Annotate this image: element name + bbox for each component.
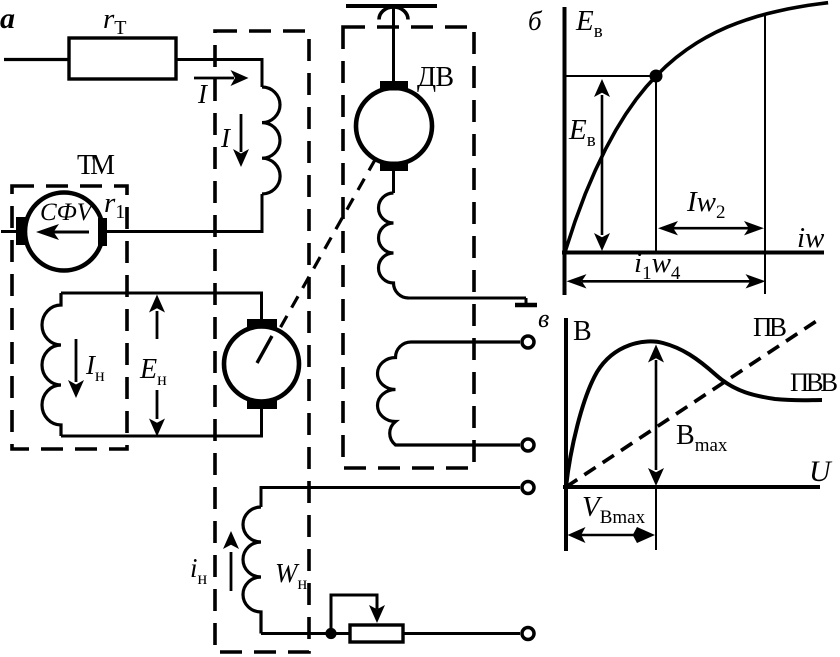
svg-text:а: а — [0, 2, 15, 35]
wire: loop bottom — [61, 409, 262, 436]
graph b: i1w4 double arrow — [567, 274, 766, 288]
svg-text:r1: r1 — [104, 187, 125, 223]
motor DV armature — [356, 81, 432, 171]
svg-text:I: I — [220, 123, 232, 153]
shaft segment inside generator — [257, 336, 272, 363]
graph v: PV dashed line — [566, 320, 818, 487]
rheostat wiper — [331, 595, 385, 634]
svg-text:в: в — [538, 304, 549, 333]
current arrow I (horizontal) — [194, 70, 249, 86]
wire: coil w1 bottom to TM node — [261, 194, 264, 233]
svg-text:Wн: Wн — [275, 558, 308, 593]
terminal v symbol — [515, 298, 537, 305]
graph v: y axis — [564, 318, 568, 551]
dashed box middle (amplifier unit) — [215, 31, 309, 652]
svg-text:I: I — [197, 79, 209, 109]
graph b: Iw2 double arrow — [658, 221, 764, 235]
shaft segment inside motor DV — [377, 131, 392, 157]
fan symbol arc — [379, 7, 408, 20]
wire: input lead to resistor rT — [4, 58, 69, 61]
graph v: PVV curve — [566, 341, 822, 487]
wire: loop top — [61, 293, 262, 320]
svg-text:Bmax: Bmax — [676, 420, 728, 456]
svg-text:ПВВ: ПВВ — [790, 367, 838, 397]
wire: series coil to terminal v — [409, 297, 527, 300]
current arrow i_n — [223, 531, 239, 591]
dashed shaft (mechanical coupling) — [279, 159, 376, 331]
graph b: y axis — [563, 7, 567, 295]
terminal 1 — [522, 336, 534, 348]
graph v: vertical line below axis — [655, 487, 657, 550]
top rail above fan — [346, 4, 437, 8]
svg-text:iн: iн — [190, 553, 208, 588]
svg-text:В: В — [573, 316, 592, 347]
svg-text:iw: iw — [797, 222, 825, 254]
svg-text:rТ: rТ — [103, 3, 127, 39]
dashed box TM — [12, 186, 127, 449]
svg-text:СФV: СФV — [40, 199, 95, 226]
generator armature (amplidyne) — [224, 319, 299, 409]
wire: fan shaft to motor DV — [392, 6, 395, 82]
series coil of DV — [379, 193, 409, 298]
graph b: horizontal level line — [565, 75, 656, 77]
svg-text:Eв: Eв — [568, 114, 596, 151]
dashed box DV — [343, 27, 474, 468]
current arrow I_n — [68, 339, 84, 398]
svg-text:U: U — [809, 455, 833, 488]
wire: TM right lead to coil w1 node — [107, 230, 263, 233]
terminal 3 — [522, 482, 534, 494]
graph b: E_v double arrow — [594, 79, 610, 251]
coil Wn (control winding) — [243, 507, 261, 634]
graph b: vertical line from dot — [655, 76, 657, 252]
graph v: x axis — [563, 485, 820, 489]
svg-text:ПВ: ПВ — [753, 312, 787, 342]
machine TM (tachogenerator) — [16, 193, 107, 271]
svg-text:Eв: Eв — [575, 5, 603, 42]
svg-text:Eн: Eн — [139, 354, 167, 389]
wire: TM left lead — [1, 230, 18, 233]
coil I_n (load winding) — [42, 293, 61, 436]
graph b: right vertical line — [764, 13, 766, 294]
arrow inside TM — [36, 224, 89, 240]
svg-text:б: б — [528, 6, 543, 36]
arrow E_n down — [149, 390, 165, 437]
graph b: operating point dot — [650, 70, 663, 83]
current arrow I (vertical) — [233, 114, 249, 167]
terminal 2 — [522, 439, 534, 451]
graph b: saturation curve — [565, 3, 828, 252]
graph v: V_Bmax double arrow — [568, 527, 656, 543]
wire: DV brush to series coil — [392, 171, 395, 193]
junction dot — [325, 628, 336, 639]
coil w1 (stabilizing winding) — [262, 87, 280, 194]
graph v: B_max double arrow — [648, 345, 664, 487]
svg-text:VBmax: VBmax — [582, 491, 646, 528]
rheostat — [350, 625, 403, 642]
svg-text:Iн: Iн — [85, 350, 105, 385]
resistor rT — [69, 38, 176, 79]
wire: terminal 3 to coil Wn — [261, 488, 520, 508]
field coil of DV (independent winding) — [378, 342, 520, 445]
wire: bottom rail to terminal 4 — [261, 632, 520, 635]
svg-text:ТМ: ТМ — [77, 150, 115, 181]
wire: resistor rT to coil w1 — [176, 60, 262, 88]
terminal 4 — [522, 628, 534, 640]
svg-text:ДВ: ДВ — [417, 62, 454, 93]
svg-text:Iw2: Iw2 — [686, 186, 726, 223]
graph b: x axis — [562, 251, 824, 255]
arrow E_n up — [149, 295, 165, 340]
